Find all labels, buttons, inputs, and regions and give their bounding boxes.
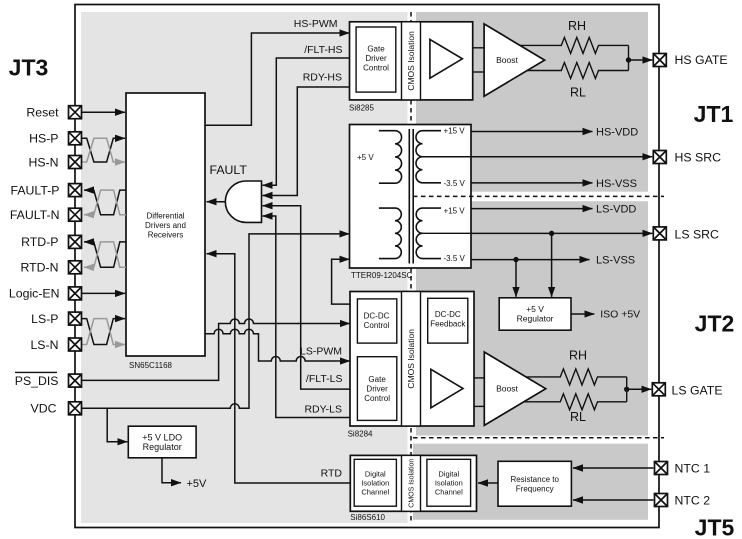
wire LS SRC from transformer to connector xyxy=(471,232,652,234)
wire Si8284 to LS boost input lower xyxy=(474,405,484,407)
connector pin LS-P JT3 xyxy=(69,312,82,325)
connector pin RTD-N JT3 xyxy=(69,261,82,274)
svg-text:Regulator: Regulator xyxy=(517,314,554,324)
svg-text:LS-P: LS-P xyxy=(31,312,58,326)
svg-text:RH: RH xyxy=(568,19,586,33)
transformer primary winding upper xyxy=(379,131,402,183)
svg-text:FAULT: FAULT xyxy=(210,163,248,177)
svg-text:Driver: Driver xyxy=(366,385,388,394)
buffer triangle inside Si8285 output side xyxy=(430,39,463,78)
wire /FLT-LS from Si8284 to FAULT gate input 3 xyxy=(263,206,351,389)
svg-text:-3.5 V: -3.5 V xyxy=(444,254,466,263)
wire FAULT-P/FAULT-N differential crossover gray xyxy=(84,190,126,215)
junction dot LS GATE xyxy=(624,387,629,392)
wire NTC 1 to resistance-to-frequency xyxy=(573,467,654,469)
svg-text:RTD-N: RTD-N xyxy=(20,261,58,275)
svg-text:Regulator: Regulator xyxy=(143,442,182,452)
svg-text:RDY-HS: RDY-HS xyxy=(303,72,342,84)
connector pin PS_DIS JT3 xyxy=(69,374,82,387)
svg-text:Gate: Gate xyxy=(368,375,386,384)
wire NTC 2 to resistance-to-frequency xyxy=(573,499,654,501)
wire HS-VDD from transformer xyxy=(471,131,593,133)
JT2/JT5 barrier dashed line horizontal xyxy=(413,437,664,439)
connector pin HS GATE JT1 xyxy=(653,54,666,67)
wire Si8284 to LS boost input upper xyxy=(474,377,484,379)
svg-text:HS-PWM: HS-PWM xyxy=(294,18,338,30)
svg-text:SN65C1168: SN65C1168 xyxy=(129,361,173,370)
connector pin RTD-P JT3 xyxy=(69,235,82,248)
wire RDY-HS from Si8285 to FAULT gate input 2 xyxy=(263,87,350,196)
isolator U3 Si86S610 digital isolation assembly box xyxy=(350,455,476,511)
resistance to frequency block U7 xyxy=(498,461,571,506)
junction dot LS-VSS feed to +5V regulator xyxy=(513,257,518,262)
boost amplifier HS triangle xyxy=(484,24,544,96)
svg-text:+5 V: +5 V xyxy=(526,304,544,314)
connector pin NTC 1 JT5 xyxy=(655,462,668,475)
svg-text:FAULT-P: FAULT-P xyxy=(11,183,60,197)
svg-text:CMOS Isolation: CMOS Isolation xyxy=(409,459,416,508)
wire LS-PWM from U4 to Si8284 with crossover bumps xyxy=(205,329,350,361)
svg-text:Reset: Reset xyxy=(26,106,59,120)
svg-text:ISO +5V: ISO +5V xyxy=(600,309,640,321)
outer board frame xyxy=(75,5,659,528)
svg-text:Control: Control xyxy=(364,394,390,403)
svg-text:RL: RL xyxy=(570,86,586,100)
transformer upper secondary mid tap wire xyxy=(423,156,472,158)
svg-text:DC-DC: DC-DC xyxy=(364,312,390,321)
svg-text:TTER09-1204SC: TTER09-1204SC xyxy=(351,271,413,280)
isolated shaded panel JT1/JT2 middle xyxy=(416,201,648,435)
svg-text:RL: RL xyxy=(570,410,586,424)
connector pin HS-P JT3 xyxy=(69,132,82,145)
wire joining RH and RL outputs high side xyxy=(628,45,630,70)
wire HS-VSS from transformer xyxy=(471,182,593,184)
junction dot HS GATE xyxy=(626,57,631,62)
gate driver control inner block of Si8284 xyxy=(357,357,396,421)
svg-text:Differential: Differential xyxy=(146,211,184,220)
svg-text:Driver: Driver xyxy=(365,54,387,63)
connector pin LS-N JT3 xyxy=(69,338,82,351)
CMOS isolation strip of Si8284 xyxy=(402,292,421,427)
svg-text:Isolation: Isolation xyxy=(361,478,389,487)
connector pin LS GATE JT2 xyxy=(652,383,665,396)
svg-text:+5V: +5V xyxy=(187,478,208,490)
svg-text:Digital: Digital xyxy=(438,469,459,478)
CMOS isolation strip of Si86S610 xyxy=(402,455,421,511)
svg-text:Feedback: Feedback xyxy=(430,320,466,329)
connector pin HS-N JT3 xyxy=(69,156,82,169)
svg-text:Receivers: Receivers xyxy=(148,230,184,239)
HS isolated shaded panel JT1 upper xyxy=(416,12,648,192)
connector pin VDC JT3 xyxy=(69,402,82,415)
wire LS GATE to connector xyxy=(627,388,652,390)
svg-text:Si86S610: Si86S610 xyxy=(350,513,385,522)
wire HS-PWM from U4 to Si8285 xyxy=(205,33,349,125)
svg-text:Boost: Boost xyxy=(496,55,518,65)
DC-DC feedback inner block of Si8284 xyxy=(428,298,468,343)
svg-text:HS GATE: HS GATE xyxy=(675,53,728,67)
wire Logic-EN to U4 xyxy=(82,292,126,294)
svg-text:LS-VSS: LS-VSS xyxy=(596,255,635,267)
connector pin FAULT-N JT3 xyxy=(69,208,82,221)
wire LS SRC down to +5V regulator xyxy=(551,233,553,296)
connector pin LS SRC JT2 xyxy=(653,227,666,240)
wire RTD from Si86S610 up to U4 xyxy=(207,254,351,483)
svg-text:HS-VDD: HS-VDD xyxy=(596,126,638,138)
resistor RH high side zigzag xyxy=(520,37,629,53)
wire PS_DIS to Si8284 DC-DC control with crossover bumps xyxy=(82,319,350,380)
svg-text:Drivers and: Drivers and xyxy=(145,221,186,230)
resistor RL high side zigzag xyxy=(527,63,629,79)
wire LS-P/LS-N differential crossover gray xyxy=(82,319,126,345)
svg-text:+5 V LDO: +5 V LDO xyxy=(142,432,182,442)
svg-text:LS-VDD: LS-VDD xyxy=(596,204,636,216)
resistor RL low side zigzag xyxy=(524,394,627,410)
svg-text:JT2: JT2 xyxy=(695,311,735,337)
svg-text:Isolation: Isolation xyxy=(435,478,463,487)
svg-text:VDC: VDC xyxy=(31,402,57,416)
svg-text:-3.5 V: -3.5 V xyxy=(444,179,466,188)
+5 VLDO regulator block U6 xyxy=(128,426,196,458)
svg-text:RTD: RTD xyxy=(321,468,343,480)
wire HS-P/HS-N differential crossover gray xyxy=(82,138,126,162)
gate driver control inner block of Si8285 xyxy=(356,27,396,92)
connector pin FAULT-P JT3 xyxy=(69,184,82,197)
CMOS isolation strip of Si8285 xyxy=(402,22,421,100)
svg-text:HS-N: HS-N xyxy=(28,155,58,169)
svg-text:JT3: JT3 xyxy=(9,55,49,81)
wire Si8285 to HS boost input upper xyxy=(473,47,484,49)
svg-text:NTC 2: NTC 2 xyxy=(675,493,711,507)
wire LS-VSS down to +5V regulator xyxy=(515,260,517,297)
wire FAULT gate output to U4 xyxy=(207,201,226,203)
transformer primary winding lower xyxy=(379,208,401,258)
svg-text:Frequency: Frequency xyxy=(516,485,554,494)
wire /FLT-HS from Si8285 to FAULT gate input 1 xyxy=(263,58,350,185)
wire RDY-LS from Si8284 to FAULT gate input 4 xyxy=(263,216,351,418)
svg-text:CMOS Isolation: CMOS Isolation xyxy=(406,31,416,91)
connector pin NTC 2 JT5 xyxy=(655,494,668,507)
svg-text:Boost: Boost xyxy=(496,384,518,394)
wire Si8285 to HS boost input lower xyxy=(473,71,484,73)
svg-text:LS-N: LS-N xyxy=(30,338,58,352)
transformer T1 TTER09-1204SC box xyxy=(350,125,472,269)
wire FAULT-P/FAULT-N differential crossover black xyxy=(84,190,126,215)
junction dot LS SRC feed to +5V regulator xyxy=(549,231,554,236)
wire joining RH and RL outputs low side xyxy=(626,377,628,402)
AND gate FAULT combiner xyxy=(225,181,261,222)
svg-text:DC-DC: DC-DC xyxy=(435,310,461,319)
svg-text:JT1: JT1 xyxy=(694,101,734,127)
svg-text:PS_DIS: PS_DIS xyxy=(15,374,59,388)
logic-side shaded panel xyxy=(81,12,408,523)
svg-text:+5 V: +5 V xyxy=(357,153,374,162)
wire resistance-to-frequency to digital isolation channel xyxy=(478,482,498,484)
wire +5V output of VLDO regulator xyxy=(162,458,181,483)
connector pin HS SRC JT1 xyxy=(653,151,666,164)
wire RTD-P/RTD-N differential crossover gray xyxy=(84,242,126,267)
svg-text:Logic-EN: Logic-EN xyxy=(9,287,60,301)
digital isolation channel inner block left xyxy=(354,459,396,506)
buffer triangle inside Si8284 output side xyxy=(431,369,463,408)
svg-text:Resistance to: Resistance to xyxy=(510,475,559,484)
wire HS SRC from transformer to connector xyxy=(471,156,652,158)
svg-text:Control: Control xyxy=(363,63,389,72)
wire LS-VDD from transformer xyxy=(471,208,593,210)
svg-text:LS SRC: LS SRC xyxy=(675,227,720,241)
wire ISO +5V output of regulator xyxy=(571,313,594,315)
svg-text:RDY-LS: RDY-LS xyxy=(304,404,342,416)
svg-text:HS-P: HS-P xyxy=(29,132,58,146)
U4 SN65C1168 differential drivers and receivers block xyxy=(126,93,205,356)
connector pin Logic-EN JT3 xyxy=(69,287,82,300)
transformer core lines xyxy=(408,129,410,264)
wire RTD-P/RTD-N differential crossover black xyxy=(84,242,126,267)
wire Reset to U4 xyxy=(82,111,126,113)
svg-text:Digital: Digital xyxy=(365,469,386,478)
connector pin Reset JT3 xyxy=(69,106,82,119)
svg-text:LS-PWM: LS-PWM xyxy=(300,346,342,358)
wire LS-VSS from transformer xyxy=(471,259,590,261)
+5 V regulator block U5 xyxy=(499,298,571,330)
wire HS GATE to connector xyxy=(629,59,653,61)
svg-text:Gate: Gate xyxy=(367,45,385,54)
NTC isolated shaded panel JT5 xyxy=(413,444,648,520)
svg-text:Si8284: Si8284 xyxy=(348,430,373,439)
DC-DC control inner block of Si8284 xyxy=(357,299,396,343)
svg-text:Si8285: Si8285 xyxy=(349,103,374,112)
svg-text:+15 V: +15 V xyxy=(444,207,466,216)
svg-text:NTC 1: NTC 1 xyxy=(675,461,711,475)
op-amp U1 Si8285 gate driver assembly box xyxy=(350,22,473,100)
wire VDC to transformer primary with crossover bump xyxy=(82,234,350,408)
transformer secondary winding lower xyxy=(416,208,441,258)
resistor RH low side zigzag xyxy=(526,369,627,385)
wire DC-DC control drive to transformer primary xyxy=(332,259,350,304)
transformer secondary winding upper xyxy=(416,131,441,183)
wire LS-P/LS-N differential crossover black xyxy=(82,319,126,345)
svg-text:/FLT-LS: /FLT-LS xyxy=(306,373,343,385)
svg-text:+15 V: +15 V xyxy=(444,126,466,135)
HS/LS isolation barrier dashed line horizontal JT1 xyxy=(413,195,664,197)
svg-text:HS SRC: HS SRC xyxy=(675,150,722,164)
svg-text:LS GATE: LS GATE xyxy=(672,384,723,398)
wire VDC branch to +5 VLDO regulator xyxy=(107,408,127,442)
op-amp U2 Si8284 gate driver assembly box xyxy=(350,292,474,427)
wire HS-P/HS-N differential crossover black xyxy=(82,138,126,162)
isolation barrier dashed line vertical xyxy=(410,12,412,523)
svg-text:CMOS Isolation: CMOS Isolation xyxy=(406,329,416,389)
digital isolation channel inner block right xyxy=(427,459,471,506)
svg-text:/FLT-HS: /FLT-HS xyxy=(304,44,342,56)
svg-text:FAULT-N: FAULT-N xyxy=(10,208,60,222)
svg-text:Channel: Channel xyxy=(435,487,463,496)
svg-text:RTD-P: RTD-P xyxy=(21,235,58,249)
svg-text:Control: Control xyxy=(364,321,390,330)
svg-text:Channel: Channel xyxy=(361,487,389,496)
svg-text:RH: RH xyxy=(569,348,587,362)
boost amplifier LS triangle xyxy=(484,352,545,425)
svg-text:JT5: JT5 xyxy=(695,515,735,539)
svg-text:HS-VSS: HS-VSS xyxy=(596,178,637,190)
transformer lower secondary mid tap wire xyxy=(423,232,472,234)
